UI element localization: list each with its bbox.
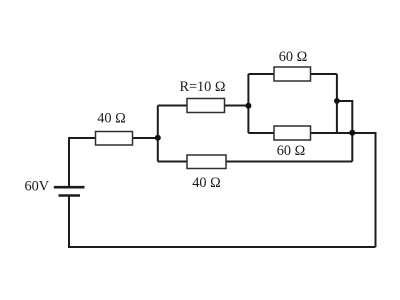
svg-text:60V: 60V: [25, 179, 50, 195]
svg-text:R=10 Ω: R=10 Ω: [179, 79, 225, 95]
svg-text:60 Ω: 60 Ω: [277, 143, 306, 159]
svg-text:40 Ω: 40 Ω: [97, 111, 126, 127]
svg-text:60 Ω: 60 Ω: [279, 49, 308, 65]
svg-text:40 Ω: 40 Ω: [192, 175, 221, 191]
